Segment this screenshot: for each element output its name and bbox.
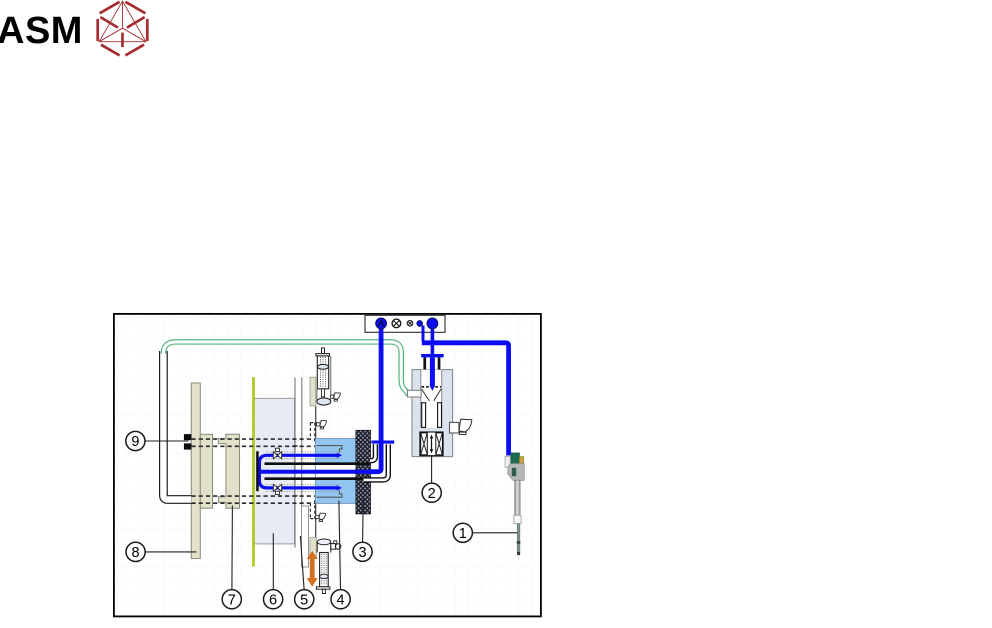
- svg-text:9: 9: [131, 434, 139, 450]
- svg-text:6: 6: [269, 592, 277, 608]
- svg-text:4: 4: [337, 592, 345, 608]
- svg-text:8: 8: [132, 545, 140, 561]
- svg-text:3: 3: [358, 545, 366, 561]
- svg-text:2: 2: [428, 486, 436, 502]
- svg-text:1: 1: [459, 526, 467, 542]
- svg-text:7: 7: [228, 592, 236, 608]
- svg-text:5: 5: [300, 592, 308, 608]
